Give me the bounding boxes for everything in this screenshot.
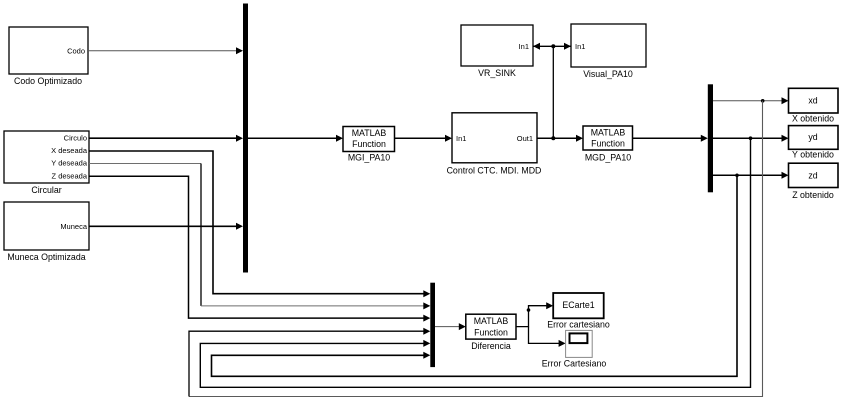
block Circular — [4, 131, 89, 195]
svg-text:Muneca Optimizada: Muneca Optimizada — [7, 252, 85, 262]
block Codo Optimizado — [9, 27, 88, 86]
block zd display — [789, 163, 839, 200]
svg-text:Function: Function — [352, 139, 386, 149]
junction on zd wire — [735, 174, 739, 178]
svg-text:Diferencia: Diferencia — [471, 341, 511, 351]
svg-text:Function: Function — [591, 139, 625, 149]
block Control CTC. MDI. MDD — [447, 113, 542, 176]
svg-text:yd: yd — [808, 132, 817, 142]
svg-text:Codo Optimizado: Codo Optimizado — [14, 76, 82, 86]
svg-text:Muneca: Muneca — [60, 222, 88, 231]
svg-text:Function: Function — [474, 328, 508, 338]
svg-text:X deseada: X deseada — [51, 146, 88, 155]
svg-text:Z obtenido: Z obtenido — [792, 190, 834, 200]
wire junction up to VR wire — [552, 46, 554, 138]
wire Control Out1 to MGD_PA10 — [537, 135, 583, 142]
wire Z deseada to Mux2 input3 — [89, 176, 430, 321]
block MGD_PA10 — [583, 126, 633, 163]
wire demux output 2 to yd — [713, 135, 789, 142]
junction on xd wire — [761, 99, 765, 103]
svg-text:Visual_PA10: Visual_PA10 — [583, 69, 633, 79]
junction on VR_SINK/Visual_PA10 wire — [551, 44, 555, 48]
svg-text:In1: In1 — [456, 134, 466, 143]
wire demux output 3 to zd — [713, 172, 789, 179]
svg-text:Control CTC. MDI. MDD: Control CTC. MDI. MDD — [447, 166, 542, 176]
block ECarte1 — [547, 293, 610, 330]
block Muneca Optimizada — [4, 202, 89, 262]
wire Muneca to Mux1 — [89, 223, 243, 230]
svg-text:Z deseada: Z deseada — [52, 171, 88, 180]
svg-text:X obtenido: X obtenido — [792, 114, 834, 124]
wire Mux1 to MGI_PA10 — [248, 135, 343, 142]
svg-text:zd: zd — [808, 171, 817, 181]
demux bar — [708, 84, 713, 192]
svg-text:ECarte1: ECarte1 — [562, 300, 594, 310]
svg-text:Error cartesiano: Error cartesiano — [547, 320, 610, 330]
block scope Error Cartesiano — [542, 330, 607, 368]
svg-text:Codo: Codo — [67, 47, 85, 56]
svg-text:MATLAB: MATLAB — [591, 128, 626, 138]
wire Mux2 to Diferencia — [435, 323, 466, 330]
junction on yd wire — [749, 136, 753, 140]
svg-text:Error Cartesiano: Error Cartesiano — [542, 359, 607, 369]
svg-text:MATLAB: MATLAB — [352, 128, 387, 138]
block MGI_PA10 — [343, 127, 395, 163]
svg-text:In1: In1 — [519, 42, 529, 51]
wire X deseada to Mux2 input1 — [89, 151, 430, 297]
wire Y deseada to Mux2 input2 — [89, 164, 430, 310]
wire Diferencia out to ECarte1 — [516, 302, 553, 326]
mux Mux1 — [243, 4, 248, 273]
wire MGI_PA10 to Control — [395, 135, 453, 142]
svg-text:xd: xd — [808, 96, 817, 106]
svg-text:VR_SINK: VR_SINK — [478, 68, 516, 78]
wire yd loop to Mux2 input5 — [200, 138, 750, 387]
block Diferencia — [466, 314, 516, 351]
svg-text:Y deseada: Y deseada — [51, 159, 88, 168]
wire Circulo to Mux1 — [89, 135, 243, 142]
wire zd loop to Mux2 input6 — [212, 175, 738, 376]
wire Codo to Mux1 — [88, 47, 243, 54]
svg-text:Circulo: Circulo — [64, 134, 87, 143]
svg-text:MATLAB: MATLAB — [474, 316, 509, 326]
junction on Out1 wire (node to Visual branch) — [551, 136, 555, 140]
wire Diferencia out branch to scope — [529, 327, 566, 347]
wire xd loop to Mux2 input4 — [189, 101, 763, 397]
wire demux output 1 to xd — [713, 97, 789, 104]
wire between VR_SINK and Visual_PA10 (double arrows) — [533, 43, 571, 50]
svg-text:Circular: Circular — [31, 185, 61, 195]
block Visual_PA10 — [571, 24, 646, 79]
svg-text:Out1: Out1 — [517, 134, 533, 143]
block VR_SINK — [461, 25, 533, 78]
block xd display — [789, 88, 839, 123]
wire MGD_PA10 to Demux — [633, 135, 708, 142]
svg-text:Y obtenido: Y obtenido — [792, 150, 834, 160]
block yd display — [789, 126, 839, 160]
mux Mux2 bar — [430, 283, 435, 367]
svg-text:MGI_PA10: MGI_PA10 — [348, 153, 390, 163]
svg-text:In1: In1 — [575, 42, 585, 51]
svg-text:MGD_PA10: MGD_PA10 — [585, 153, 631, 163]
junction on Diferencia output branch — [527, 308, 531, 312]
